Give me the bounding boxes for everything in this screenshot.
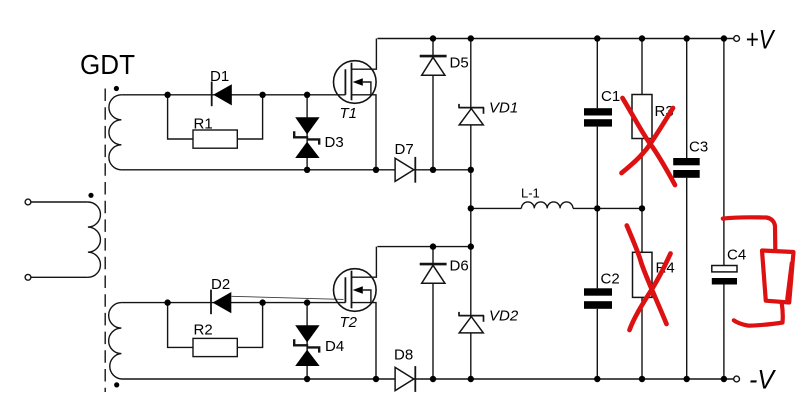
junction dots source wire 1 bbox=[304, 167, 474, 173]
svg-text:+V: +V bbox=[746, 25, 776, 55]
diode D6 bbox=[420, 247, 469, 379]
resistor R4 bbox=[633, 208, 675, 379]
junction dots gate loop 2 bbox=[164, 299, 310, 305]
inductor L-1 bbox=[521, 202, 573, 208]
transformer core bbox=[104, 89, 106, 393]
svg-text:C1: C1 bbox=[601, 88, 620, 105]
svg-text:R1: R1 bbox=[194, 116, 213, 133]
svg-text:GDT: GDT bbox=[80, 49, 135, 80]
red cross over R4 bbox=[627, 226, 671, 331]
svg-text:D5: D5 bbox=[450, 55, 469, 72]
capacitor C1 bbox=[584, 39, 620, 209]
wire artifact line D2 to T2 gate bbox=[232, 296, 344, 299]
zener VD2 bbox=[458, 308, 518, 333]
wire primary bottom lead bbox=[31, 276, 88, 278]
secondary winding 2 bbox=[109, 303, 122, 379]
resistor R1 bbox=[168, 95, 263, 148]
svg-text:C3: C3 bbox=[689, 138, 708, 155]
primary top terminal bbox=[25, 199, 31, 205]
capacitor C4 bbox=[712, 39, 746, 380]
svg-text:D2: D2 bbox=[211, 276, 230, 293]
secondary 2 phase dot bbox=[114, 382, 119, 387]
primary winding bbox=[88, 202, 101, 277]
resistor R3 bbox=[632, 39, 674, 209]
junction dots -V rail bbox=[304, 376, 727, 382]
svg-text:VD1: VD1 bbox=[489, 100, 518, 117]
svg-text:D8: D8 bbox=[394, 347, 413, 364]
svg-text:C4: C4 bbox=[727, 246, 746, 263]
wire +V rail bbox=[377, 38, 733, 40]
mosfet T1 bbox=[334, 39, 377, 170]
svg-text:T2: T2 bbox=[340, 314, 358, 331]
red annotation resistor across C4 bbox=[723, 217, 794, 325]
svg-text:L-1: L-1 bbox=[521, 186, 540, 201]
svg-text:D7: D7 bbox=[395, 141, 414, 158]
svg-text:D6: D6 bbox=[450, 258, 469, 275]
secondary winding 1 bbox=[109, 95, 122, 170]
junction dots T2 drain rail bbox=[430, 243, 474, 249]
wire output node to L-1 bbox=[471, 207, 522, 209]
capacitor C2 bbox=[584, 208, 620, 379]
wire gate loop 1 top bbox=[121, 94, 345, 96]
wire primary top lead bbox=[31, 201, 88, 203]
mosfet T2 bbox=[334, 247, 377, 379]
junction dots top rail bbox=[430, 35, 727, 41]
diode D5 bbox=[420, 39, 469, 170]
svg-text:-V: -V bbox=[749, 365, 777, 395]
suppressor D4 bbox=[294, 303, 344, 379]
diode D7 bbox=[395, 141, 416, 183]
diode D1 bbox=[210, 68, 232, 106]
wire L-1 to C1 R3 node bbox=[573, 207, 642, 209]
diode D2 bbox=[211, 276, 231, 314]
red cross over R3 bbox=[622, 98, 676, 185]
wire gate loop 2 top bbox=[121, 302, 345, 304]
junction dots L-1 node bbox=[468, 205, 646, 211]
+V terminal bbox=[734, 36, 740, 42]
svg-text:VD2: VD2 bbox=[489, 308, 519, 325]
primary phase dot bbox=[88, 193, 93, 198]
resistor R2 bbox=[168, 303, 263, 357]
svg-text:D1: D1 bbox=[210, 68, 229, 85]
diode D8 bbox=[394, 347, 415, 392]
wire T2 drain rail bbox=[377, 246, 470, 248]
wire -V rail bbox=[121, 378, 733, 380]
zener VD1 bbox=[458, 39, 518, 380]
svg-text:T1: T1 bbox=[340, 105, 358, 122]
primary bottom terminal bbox=[25, 274, 31, 280]
svg-text:D3: D3 bbox=[325, 134, 344, 151]
wire gate loop 1 bottom bbox=[121, 169, 470, 171]
-V terminal bbox=[734, 376, 740, 382]
suppressor D3 bbox=[294, 95, 343, 170]
capacitor C3 bbox=[673, 39, 708, 380]
svg-text:R2: R2 bbox=[194, 322, 213, 339]
secondary 1 phase dot bbox=[114, 86, 119, 91]
svg-text:D4: D4 bbox=[325, 338, 344, 355]
junction dots gate loop 1 bbox=[164, 92, 310, 98]
svg-text:C2: C2 bbox=[601, 271, 620, 288]
